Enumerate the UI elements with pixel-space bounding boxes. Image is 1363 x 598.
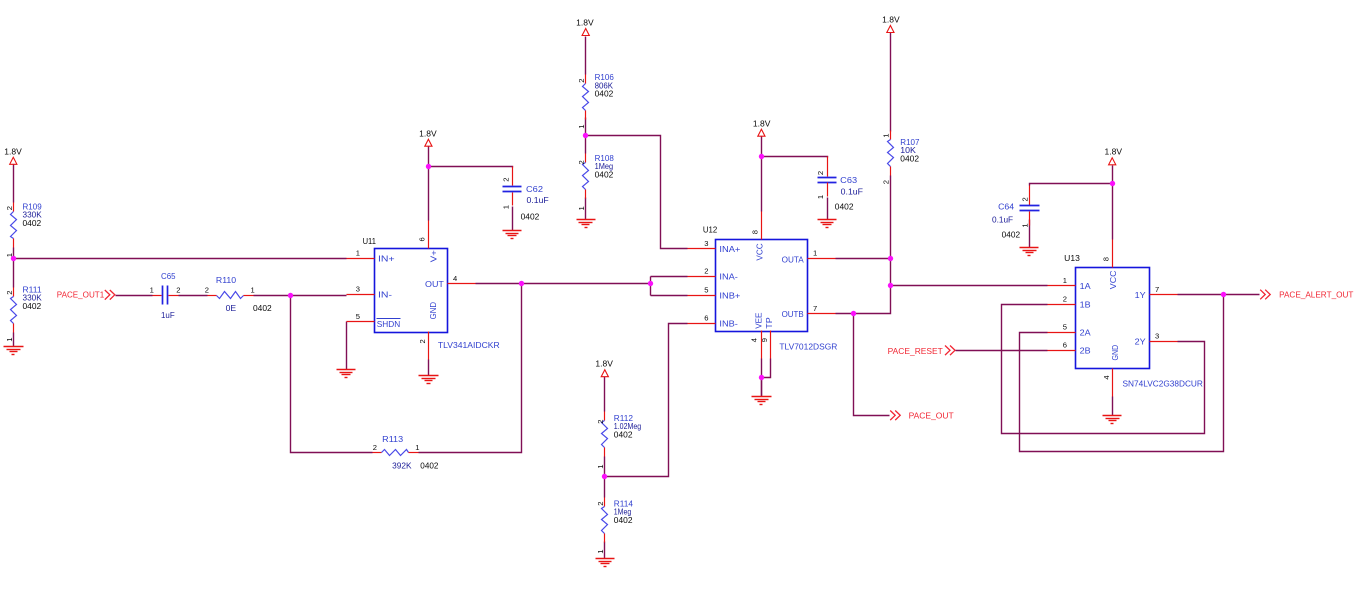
svg-text:9: 9 xyxy=(760,338,769,342)
svg-text:OUT: OUT xyxy=(425,279,444,289)
svg-text:PACE_ALERT_OUT: PACE_ALERT_OUT xyxy=(1279,290,1353,300)
svg-text:GND: GND xyxy=(1110,345,1120,361)
svg-text:2: 2 xyxy=(1020,197,1029,201)
svg-text:0402: 0402 xyxy=(253,303,272,313)
svg-text:0402: 0402 xyxy=(521,212,540,222)
svg-text:GND: GND xyxy=(428,302,438,320)
svg-text:0402: 0402 xyxy=(614,515,633,525)
svg-text:1: 1 xyxy=(251,285,255,294)
svg-text:0402: 0402 xyxy=(595,170,614,180)
svg-text:0402: 0402 xyxy=(23,218,42,228)
svg-text:1: 1 xyxy=(1020,223,1029,227)
svg-text:C62: C62 xyxy=(526,184,543,194)
svg-text:2Y: 2Y xyxy=(1135,337,1146,347)
svg-text:5: 5 xyxy=(1063,323,1067,332)
svg-text:2A: 2A xyxy=(1080,328,1091,338)
svg-text:C64: C64 xyxy=(998,201,1014,211)
svg-text:3: 3 xyxy=(704,239,708,248)
svg-text:0402: 0402 xyxy=(614,429,633,439)
svg-text:5: 5 xyxy=(356,312,360,321)
svg-text:7: 7 xyxy=(813,304,817,313)
svg-text:4: 4 xyxy=(1102,375,1111,379)
svg-text:INB+: INB+ xyxy=(719,291,740,301)
svg-text:1.8V: 1.8V xyxy=(576,17,594,27)
svg-text:1Y: 1Y xyxy=(1135,290,1146,300)
svg-text:1A: 1A xyxy=(1080,281,1091,291)
svg-text:6: 6 xyxy=(1063,341,1067,350)
svg-text:1: 1 xyxy=(596,465,605,469)
svg-text:1B: 1B xyxy=(1080,300,1091,310)
svg-text:1uF: 1uF xyxy=(161,310,175,320)
svg-text:0402: 0402 xyxy=(900,153,919,163)
svg-text:4: 4 xyxy=(453,274,457,283)
svg-text:2: 2 xyxy=(418,339,427,343)
svg-text:1: 1 xyxy=(577,125,586,129)
svg-text:0E: 0E xyxy=(226,303,237,313)
svg-text:0402: 0402 xyxy=(23,301,42,311)
svg-text:1: 1 xyxy=(596,550,605,554)
svg-text:2: 2 xyxy=(373,443,377,452)
svg-text:1: 1 xyxy=(415,443,419,452)
svg-text:2: 2 xyxy=(5,206,14,210)
svg-text:2: 2 xyxy=(205,285,209,294)
svg-text:PACE_OUT: PACE_OUT xyxy=(909,410,954,420)
svg-text:SHDN: SHDN xyxy=(377,319,401,329)
svg-text:R113: R113 xyxy=(382,434,403,444)
svg-text:2: 2 xyxy=(882,180,891,184)
svg-text:0402: 0402 xyxy=(835,201,854,211)
svg-text:1.8V: 1.8V xyxy=(753,118,771,128)
svg-text:OUTA: OUTA xyxy=(782,254,805,264)
svg-text:0.1uF: 0.1uF xyxy=(992,214,1013,224)
svg-text:1: 1 xyxy=(5,338,14,342)
svg-text:1.8V: 1.8V xyxy=(882,14,900,24)
svg-text:1: 1 xyxy=(882,134,891,138)
svg-text:392K: 392K xyxy=(392,460,412,470)
svg-text:IN-: IN- xyxy=(378,290,392,300)
svg-text:IN+: IN+ xyxy=(378,254,395,264)
svg-text:2: 2 xyxy=(577,160,586,164)
svg-text:2: 2 xyxy=(596,502,605,506)
svg-text:R110: R110 xyxy=(216,275,237,285)
svg-text:7: 7 xyxy=(1155,285,1159,294)
svg-text:3: 3 xyxy=(1155,332,1159,341)
svg-text:2: 2 xyxy=(1063,295,1067,304)
svg-text:2: 2 xyxy=(816,171,825,175)
svg-text:C65: C65 xyxy=(161,271,176,281)
svg-text:VEE: VEE xyxy=(754,312,764,329)
svg-text:2: 2 xyxy=(5,291,14,295)
svg-text:1: 1 xyxy=(1063,276,1067,285)
svg-text:C63: C63 xyxy=(840,175,857,185)
svg-text:0402: 0402 xyxy=(595,89,614,99)
svg-text:SN74LVC2G38DCUR: SN74LVC2G38DCUR xyxy=(1123,379,1203,389)
svg-text:U11: U11 xyxy=(363,236,377,246)
svg-text:V+: V+ xyxy=(428,250,438,262)
svg-text:8: 8 xyxy=(1102,257,1111,261)
svg-text:6: 6 xyxy=(418,237,427,241)
svg-text:U12: U12 xyxy=(703,225,718,235)
svg-text:1: 1 xyxy=(577,206,586,210)
svg-text:4: 4 xyxy=(750,338,759,342)
svg-text:INB-: INB- xyxy=(719,318,738,328)
svg-text:1.8V: 1.8V xyxy=(1105,147,1123,157)
svg-text:2: 2 xyxy=(704,267,708,276)
svg-text:0.1uF: 0.1uF xyxy=(841,186,863,196)
svg-text:PACE_RESET: PACE_RESET xyxy=(888,346,943,356)
svg-text:2: 2 xyxy=(176,285,180,294)
svg-text:1: 1 xyxy=(356,248,360,257)
svg-text:INA-: INA- xyxy=(719,272,738,282)
svg-text:1.8V: 1.8V xyxy=(4,146,22,156)
svg-text:1.8V: 1.8V xyxy=(419,128,437,138)
svg-text:VCC: VCC xyxy=(755,243,765,260)
svg-text:0.1uF: 0.1uF xyxy=(527,195,549,205)
svg-text:1: 1 xyxy=(816,195,825,199)
svg-text:OUTB: OUTB xyxy=(782,309,805,319)
svg-text:U13: U13 xyxy=(1064,253,1080,263)
svg-text:TP: TP xyxy=(764,317,774,329)
svg-text:2B: 2B xyxy=(1080,346,1091,356)
svg-text:1: 1 xyxy=(502,205,511,209)
svg-text:3: 3 xyxy=(356,285,360,294)
svg-text:5: 5 xyxy=(704,286,708,295)
svg-text:2: 2 xyxy=(596,420,605,424)
svg-text:VCC: VCC xyxy=(1108,271,1118,290)
svg-text:8: 8 xyxy=(750,230,759,234)
svg-text:1.8V: 1.8V xyxy=(595,358,613,368)
svg-text:INA+: INA+ xyxy=(719,244,740,254)
svg-text:1: 1 xyxy=(813,248,817,257)
svg-text:6: 6 xyxy=(704,313,708,322)
svg-text:TLV341AIDCKR: TLV341AIDCKR xyxy=(438,340,500,350)
svg-text:0402: 0402 xyxy=(1002,229,1021,239)
svg-text:2: 2 xyxy=(577,79,586,83)
svg-text:2: 2 xyxy=(502,178,511,182)
svg-text:PACE_OUT1: PACE_OUT1 xyxy=(57,290,105,300)
svg-text:0402: 0402 xyxy=(420,460,438,470)
svg-text:TLV7012DSGR: TLV7012DSGR xyxy=(779,342,837,352)
svg-text:1: 1 xyxy=(150,285,154,294)
